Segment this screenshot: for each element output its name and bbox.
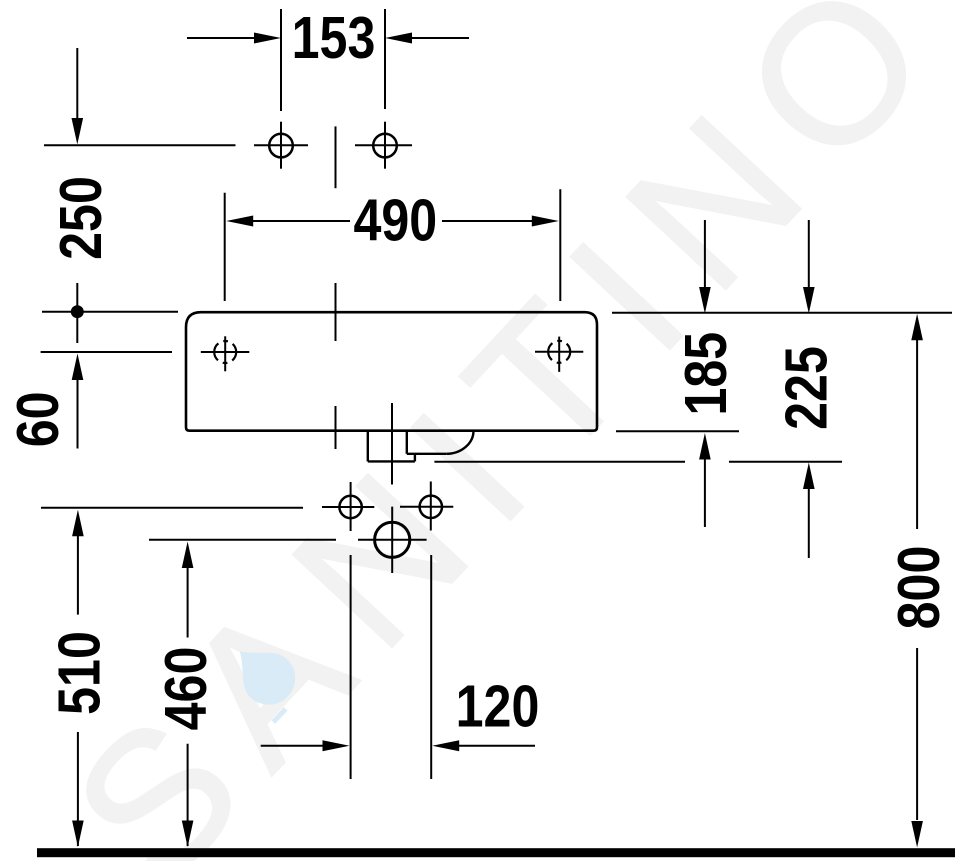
wire dim 120 line right (458, 745, 535, 747)
wire drain level line left seg (434, 461, 685, 463)
arrow dim490 right pointing right (532, 216, 559, 227)
mounting hole left cross v (224, 336, 226, 371)
floor line (37, 848, 955, 857)
arrow dim460 down (182, 821, 194, 848)
mounting hole left dashed (214, 341, 236, 363)
arrow dim185 bottom up (699, 433, 711, 460)
label 460 (152, 647, 219, 731)
wire small hole cross h left (322, 506, 374, 508)
wire drain left edge (367, 431, 369, 462)
wire small hole cross v left (350, 482, 352, 531)
wire drain bottom (368, 460, 415, 462)
wire small hole cross v right (430, 482, 432, 531)
wire faucet centerline cross v left (280, 122, 282, 169)
arrow dim250 down (72, 118, 84, 145)
watermark SANITINO drop (222, 632, 306, 716)
wire line y508 long (41, 507, 303, 509)
arrow dim510 down (72, 821, 84, 848)
wire dim 800 upper shaft (916, 338, 918, 529)
wire ext line right faucet hole (384, 9, 386, 109)
wire dim 185 bottom shaft (704, 459, 706, 527)
label 490 (353, 187, 437, 254)
wire dim 490 ext right (559, 189, 561, 301)
svg-text:460: 460 (152, 647, 219, 731)
arrow dim120 left pointing right (323, 740, 350, 751)
wire top level line right (612, 312, 952, 314)
svg-text:250: 250 (47, 176, 114, 260)
wire large hole cross v (391, 507, 393, 573)
svg-text:490: 490 (353, 187, 437, 254)
wire centerline faucet axis seg1 (335, 126, 337, 188)
label 510 (46, 631, 113, 715)
node datum dot (71, 305, 84, 318)
wire datum line y312 (42, 311, 178, 313)
wire dim 490 ext left (224, 193, 226, 301)
svg-text:153: 153 (292, 4, 376, 71)
label 120 (456, 673, 540, 740)
wire dim 510 upper shaft (77, 536, 79, 615)
wire large hole cross h (358, 539, 427, 541)
wire dim 120 line left (261, 745, 324, 747)
faucet hole right (373, 134, 397, 158)
arrow dim153 right pointing left (385, 33, 412, 44)
mounting hole left cross h (201, 351, 250, 353)
wire drain centerline (391, 403, 393, 485)
wire drain inner vertical (406, 431, 408, 454)
wire dim 800 lower shaft (916, 648, 918, 820)
arrow dim153 left pointing right (254, 33, 281, 44)
wire dim 225 bottom shaft (808, 489, 810, 559)
bottom small hole left (339, 496, 361, 518)
circles (201, 134, 584, 558)
label 153 (292, 4, 376, 71)
bottom small hole right (420, 496, 442, 518)
svg-text:185: 185 (672, 332, 739, 416)
svg-text:510: 510 (46, 631, 113, 715)
wire ext line left faucet hole (280, 9, 282, 111)
svg-text:120: 120 (456, 673, 540, 740)
wire dim 460 upper shaft (187, 568, 189, 638)
arrow dim490 left pointing left (226, 216, 253, 227)
wire dim 153 right segment (410, 37, 469, 39)
svg-text:60: 60 (4, 392, 71, 448)
label 60 (4, 392, 71, 448)
wire drain level line right seg (729, 461, 842, 463)
arrow dim225 bottom up (803, 463, 815, 490)
arrow dim185 top down (699, 287, 711, 314)
watermark drop sliver below A crossbar (272, 707, 288, 724)
wire line y540 (149, 539, 336, 541)
wire dim 120 ext right (430, 555, 432, 779)
wire faucet cross h left (254, 144, 308, 146)
mounting hole right cross h (535, 351, 583, 353)
arrow dim800 bottom down (911, 821, 923, 848)
wire dim 490 line left (252, 220, 350, 222)
arrow dim60 up (72, 354, 84, 381)
label 225 (772, 346, 839, 430)
wire faucet axis line left long (44, 144, 236, 146)
wire centerline faucet axis seg2 (335, 283, 337, 341)
wire centerline faucet axis seg3 (335, 406, 337, 449)
faucet hole left (269, 134, 293, 158)
label 800 (885, 546, 952, 630)
wire dim 120 ext left (350, 555, 352, 779)
arrow dim460 up (182, 542, 194, 569)
wire drain right step (414, 454, 416, 462)
bottom large hole (375, 522, 410, 557)
wire datum vertical through dot (76, 283, 78, 343)
wire dim 60 bottom shaft (77, 380, 79, 449)
wire line y352 hole axis left (41, 351, 172, 353)
mounting hole right dashed (548, 341, 570, 363)
wire dim 185 tick line (616, 430, 739, 432)
wire faucet centerline cross v right (384, 122, 386, 169)
wire dim 185 top shaft (704, 220, 706, 288)
wire dim 153 left segment (187, 37, 258, 39)
arrow dim800 top up (911, 314, 923, 341)
label 185 (672, 332, 739, 416)
sink body outline (186, 312, 597, 431)
wire dim 225 top shaft (808, 220, 810, 288)
arrow dim120 right pointing left (432, 740, 459, 751)
wire dim 490 line right (442, 220, 534, 222)
wire faucet cross h right (355, 144, 412, 146)
wire drain curve (446, 431, 473, 454)
label 250 (47, 176, 114, 260)
arrow dim225 top down (803, 287, 815, 314)
svg-text:800: 800 (885, 546, 952, 630)
drain detail outline (368, 431, 474, 462)
wire dim 510 lower shaft (77, 732, 79, 846)
wire dim 250 top shaft (76, 48, 78, 120)
arrow dim510 up (72, 510, 84, 537)
mounting hole right cross v (558, 337, 560, 372)
wire drain inner horizontal (407, 453, 446, 455)
wire dim 460 lower shaft (187, 744, 189, 846)
wire small hole cross h right (400, 506, 453, 508)
svg-text:225: 225 (772, 346, 839, 430)
